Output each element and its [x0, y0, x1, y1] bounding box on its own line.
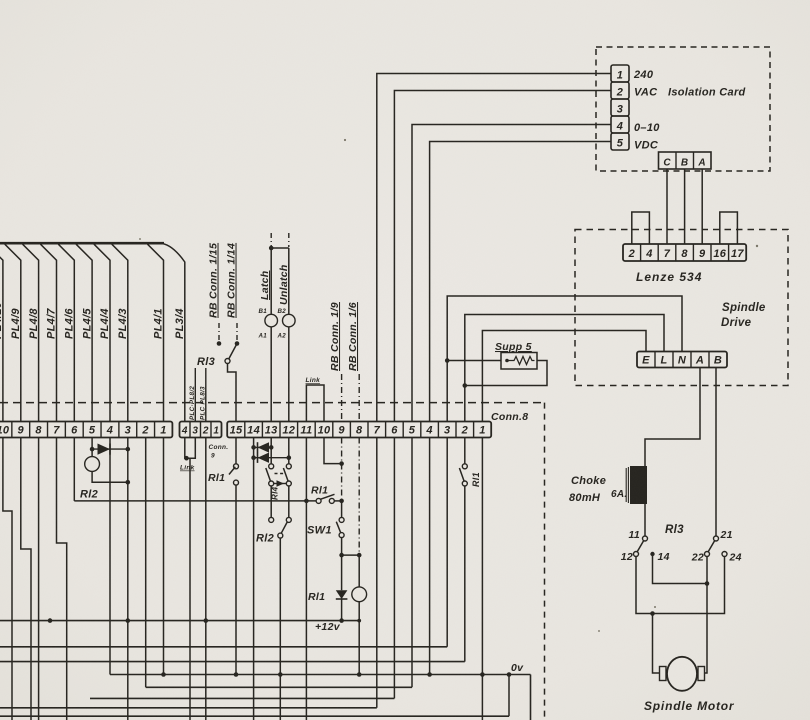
- rail E (to pin 7): [0, 707, 377, 709]
- wire PL4/6 from bus to terminal: [58, 244, 74, 421]
- wire PL4/9 down (jog): [21, 438, 31, 720]
- node RB Conn. 1/15 end: [217, 341, 222, 346]
- switch SW1 bottom: [339, 533, 344, 538]
- wire SW1 down: [341, 538, 343, 556]
- node 22 junction: [705, 581, 710, 586]
- wire PL4/8 down: [38, 438, 40, 720]
- wire Conn.8 pin 3 down: [446, 438, 448, 647]
- connector strip PL4 terminals 10..1: [0, 422, 172, 438]
- wire PL4/5 from bus to terminal: [76, 244, 92, 421]
- mechanical coupling RL4: [275, 473, 286, 475]
- contact RL1 (pin2) top: [462, 464, 467, 469]
- rail B (to pin 2 chain): [0, 661, 465, 663]
- contact RL4 left bottom: [269, 481, 274, 486]
- wire PLC PL8/3 to Conn.9 pin 2: [205, 368, 207, 422]
- isolation card terminals C B A: [659, 152, 712, 169]
- isolation card terminals 1-5: [611, 65, 629, 82]
- contact RL3 lever: [229, 345, 237, 359]
- dashed boundary line of Conn.8 area (horizontal): [0, 402, 545, 404]
- contact RL4 left lever: [266, 468, 271, 481]
- node diode anode: [90, 447, 95, 452]
- wire Conn.8 pin 12 to contact: [288, 438, 290, 464]
- lamp RL1: [358, 555, 360, 587]
- contact RL2 fixed right: [286, 517, 291, 522]
- contact RL1 (rail) lever: [320, 494, 334, 499]
- node D1 left: [251, 445, 256, 450]
- wire latch stub (dash-dot): [270, 233, 272, 247]
- contact RL1 (pin15) lever: [229, 467, 235, 475]
- wire isolation card to Conn.8 pin 7: [377, 74, 611, 422]
- wire Conn.9 pin 2 down: [205, 438, 207, 720]
- wire to coil B1: [270, 248, 272, 314]
- contact RL3 22: [705, 552, 710, 557]
- wire PL4/2 down to row: [145, 438, 147, 688]
- wire horizontal feed bus (cut off at left edge): [0, 242, 164, 245]
- wire PL4/1 from bus to terminal: [148, 244, 164, 421]
- choke 80mH 6A body: [630, 466, 647, 504]
- wire PL4/4 down to 0v rail: [109, 438, 111, 675]
- link below Conn.9 pins 4-3: [185, 438, 196, 459]
- node diode on +12v rail: [339, 618, 344, 623]
- wire RB Conn. 1/14 (dash-dot): [236, 323, 238, 342]
- node RL2-chain on 0v rail: [278, 672, 283, 677]
- switch SW1 top: [339, 517, 344, 522]
- diode D1 pins 14-13: [254, 446, 272, 448]
- node pin 4 on 0v rail: [427, 672, 432, 677]
- wire contact to 0v rail: [235, 485, 237, 675]
- node D1 right: [269, 445, 274, 450]
- node lamp chain on 0v rail: [357, 672, 362, 677]
- wire PL4/10 down (jog): [3, 438, 12, 720]
- wire Conn.8 pin 15 to contact: [235, 438, 237, 464]
- contact RL1 (pin2) lever: [459, 468, 464, 481]
- wire Conn.8 pin 14 down: [253, 438, 255, 720]
- wire coil top link: [271, 247, 289, 249]
- wire pin2 contact down: [464, 486, 466, 662]
- node Conn.9 pin 2 on +12v rail: [204, 618, 209, 623]
- wire PL4/4 from bus to terminal: [94, 244, 110, 421]
- jumper loop Lenze 2-4: [632, 212, 650, 244]
- wire pin 9 to SW1: [341, 503, 343, 518]
- contact RL1 (pin15) top: [234, 464, 239, 469]
- wire 12 to 24 (bottom loop): [636, 557, 725, 614]
- wire Conn.8 pin 2 to contact: [464, 438, 466, 464]
- wire C to Lenze 7: [666, 169, 668, 244]
- node link junction: [184, 456, 189, 461]
- wire lamp to 0v rail: [358, 621, 360, 675]
- node 0v tap: [507, 672, 512, 677]
- contact RL1 (pin2) bottom: [462, 481, 467, 486]
- contact RL4 right lever: [283, 468, 288, 481]
- paper grain overlay: [0, 0, 1, 1]
- wire PL4/8 from bus to terminal: [23, 244, 39, 421]
- contact RL3 fixed terminal: [225, 359, 230, 364]
- rail +12v: [0, 620, 359, 622]
- wire PL4/3 down: [127, 438, 129, 720]
- wire Conn.8 pin 11 down: [305, 438, 307, 720]
- node on +12v rail: [48, 618, 53, 623]
- contact RL3 21: [714, 536, 719, 541]
- wire Conn.8 pin 2 to terminal L: [465, 315, 664, 422]
- diode D2 pins 14-12: [254, 457, 289, 459]
- contact RL3 12: [634, 552, 639, 557]
- wire Supp5 left lead: [447, 360, 501, 362]
- contact RL3 lever 21-22: [708, 541, 714, 552]
- node RL2 coil bottom junction: [126, 480, 131, 485]
- wire PL4/6 down to RL1 rail: [73, 438, 75, 501]
- contact RL3 11: [643, 536, 648, 541]
- wire PL4/7 from bus to terminal: [41, 244, 57, 421]
- wire Conn.8 pin 4 down to 0v: [429, 438, 431, 675]
- connector strip Conn.8 terminals 15..1: [227, 422, 491, 438]
- wire RL4 right bottom down: [288, 486, 290, 518]
- node motor-left junction: [650, 611, 655, 616]
- wire Conn.8 pin 7 down: [376, 438, 378, 708]
- relay coil RL3 unlatch winding: [283, 314, 296, 327]
- connector strip Lenze terminals 2,4,7,8,9,16,17: [623, 244, 746, 261]
- node D2 right: [287, 455, 292, 460]
- spindle motor body: [667, 657, 697, 691]
- wire Conn.8 pin 3 to terminal N: [447, 296, 682, 422]
- dashed boundary line of Conn.8 area (vertical, right side): [544, 403, 546, 720]
- wire 0v rail drop (right end): [530, 675, 532, 720]
- wire to coil B2: [288, 248, 290, 314]
- contact RL3 lever 11-12: [637, 541, 643, 552]
- node pin 1 on 0v rail: [480, 672, 485, 677]
- contact RL1 (pin15) bottom: [234, 480, 239, 485]
- wire PL4/10 from bus to terminal: [0, 244, 3, 421]
- wire RB Conn. 1/15 (dash-dot): [218, 323, 220, 342]
- wire Conn.8 pin 8 down (dash-dot): [358, 438, 360, 556]
- rail A (to pin 3): [0, 646, 447, 648]
- suppressor Supp5 internal dot: [505, 359, 509, 363]
- contact RL4 right bottom: [286, 481, 291, 486]
- contact RL1 (rail) left: [316, 498, 321, 503]
- diode across RL2 coil: [92, 448, 128, 450]
- rail 0v: [110, 674, 531, 676]
- wire RB Conn. 1/9 to Conn.8 pin 9 (dash-dot): [341, 374, 343, 422]
- wire RL2 common down: [279, 538, 281, 720]
- node pin 11 on control rail: [304, 499, 309, 504]
- wire junction to motor left brush: [653, 614, 660, 674]
- node RB Conn. 1/14 end: [235, 341, 240, 346]
- node D2 left: [251, 455, 256, 460]
- contact RL2 lever: [281, 522, 287, 533]
- wire control rail: [74, 500, 317, 502]
- wire Conn.8 pin 1 down: [481, 438, 483, 720]
- wire isolation card to Conn.8 pin 5: [412, 125, 611, 422]
- node pin15-chain on 0v rail: [234, 672, 239, 677]
- connector strip E L N A B: [637, 352, 727, 368]
- wire RL2 coil bottom: [92, 471, 128, 482]
- node PL4/3 on +12v rail: [126, 618, 131, 623]
- wire isolation card to Conn.8 pin 6: [394, 91, 611, 422]
- wire Conn.8 pin 13 to contact: [270, 438, 272, 464]
- connector strip Conn.9 terminals 4..1: [180, 422, 222, 438]
- rail F (bottom): [0, 715, 509, 717]
- node SW1-lamp link right: [357, 553, 362, 558]
- isolation card dashed box: [596, 47, 770, 171]
- wire 0v tap down: [508, 675, 510, 717]
- wire Conn.8 pin 10 jog to pin 9: [324, 438, 342, 464]
- node Supp5 right junction: [463, 383, 468, 388]
- node lamp on +12v rail: [357, 619, 361, 623]
- wire PL4/7 down (jog): [57, 438, 67, 720]
- wire PL4/3 from bus to terminal: [112, 244, 128, 421]
- wire from link down: [189, 458, 191, 720]
- wire diode to coil RL2: [91, 449, 93, 457]
- wire A to Lenze 9: [701, 169, 703, 244]
- rail C (to pin 5): [146, 686, 412, 688]
- wire 14 to 22: [653, 556, 708, 584]
- wire B to Lenze 8: [684, 169, 686, 244]
- contact RL3 24: [722, 552, 727, 557]
- switch SW1 lever: [336, 522, 341, 533]
- wire PLC PL8/2 to Conn.9 pin 3: [194, 368, 196, 422]
- diode RL1 (coil suppression): [341, 555, 343, 590]
- spindle drive dashed box: [575, 230, 788, 386]
- wire choke to contact 11: [644, 504, 646, 536]
- relay coil RL3 latch winding: [265, 314, 278, 327]
- wire PL3/4 from bus to Conn.9 pin 4: [160, 243, 185, 421]
- wire Conn.8 pin 5 down: [411, 438, 413, 688]
- wire Conn.8 pin 6 down: [393, 438, 395, 699]
- wire coil A1 to Conn.8 pin 13: [270, 327, 272, 422]
- wire PL4/9 from bus to terminal: [5, 244, 21, 421]
- link SW1 chain to lamp: [342, 554, 360, 556]
- wire PL4/1 down to 0v rail: [163, 438, 165, 675]
- relay coil RL2: [85, 457, 100, 472]
- contact RL3 14: [650, 552, 654, 556]
- wire RL3 contact to Conn.8 pin 15: [228, 364, 237, 422]
- node pin 9 chain junction: [339, 499, 344, 504]
- rail D (to pin 6): [90, 697, 394, 699]
- suppressor Supp5 internal resistor: [507, 357, 535, 365]
- contact RL2 common: [278, 533, 283, 538]
- contact RL4 left top: [269, 464, 274, 469]
- wire PL4/5 to diode: [91, 438, 93, 450]
- wire Conn.8 pin 9 down (dash-dot): [341, 438, 343, 500]
- wire 22 to motor right brush: [705, 557, 708, 674]
- wire isolation card to Conn.8 pin 4: [430, 142, 611, 422]
- node pin10-pin9 junction: [339, 461, 344, 466]
- scan speckles: [344, 139, 346, 141]
- node SW1-lamp link left: [339, 553, 344, 558]
- jumper loop Lenze 16-17: [720, 212, 738, 244]
- contact RL1 (rail) right: [329, 498, 334, 503]
- link between Conn.8 pins 11 and 10: [306, 385, 324, 422]
- wire terminal A to choke: [645, 368, 700, 467]
- wire Supp5 right lead: [465, 361, 547, 386]
- contact RL4 right top: [286, 464, 291, 469]
- wire Conn.8 pin 1 to terminal E: [482, 331, 646, 422]
- wire RL4 left bottom down: [270, 486, 272, 518]
- node PL4/1 on 0v rail: [161, 672, 166, 677]
- node diode cathode: [126, 447, 131, 452]
- spindle motor left brush: [660, 667, 667, 681]
- suppressor Supp5 body: [501, 353, 537, 370]
- node coil link junction: [269, 246, 274, 251]
- wire contact to pin 9 chain: [334, 500, 341, 502]
- wire unlatch stub (dash-dot): [288, 233, 290, 247]
- wire coil A2 to Conn.8 pin 12: [288, 327, 290, 422]
- wire RB Conn. 1/6 to Conn.8 pin 8 (dash-dot): [358, 374, 360, 422]
- node Supp5 left junction: [445, 358, 450, 363]
- spindle motor right brush: [698, 667, 705, 681]
- wire terminal B to contact 21: [715, 368, 717, 537]
- link RL4 bottoms with arrow: [274, 483, 287, 485]
- contact RL2 fixed left: [269, 517, 274, 522]
